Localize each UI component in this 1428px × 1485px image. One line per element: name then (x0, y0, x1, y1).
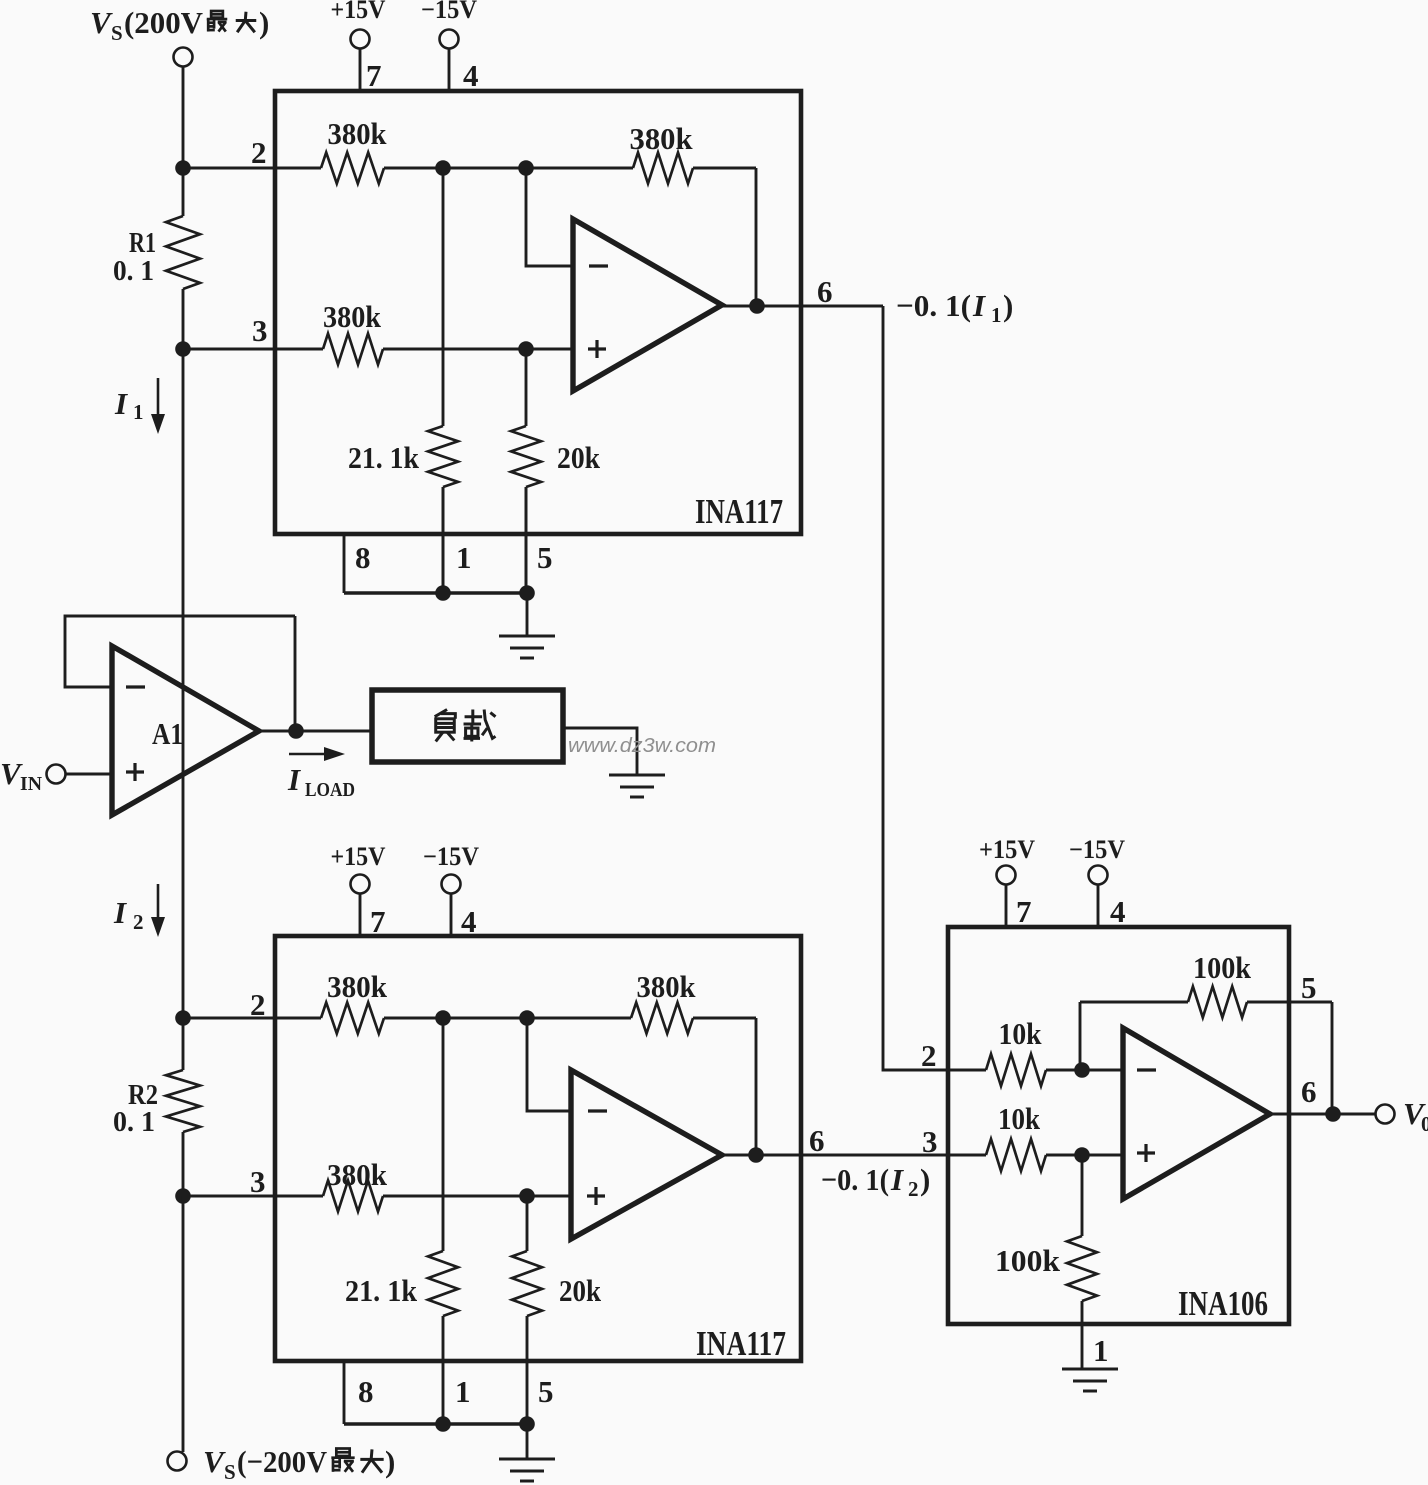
label +15V lower (331, 842, 386, 871)
node minus tap upper (518, 160, 534, 176)
svg-text:5: 5 (1301, 970, 1317, 1005)
svg-text:380k: 380k (328, 116, 388, 151)
svg-text:INA106: INA106 (1178, 1284, 1268, 1323)
node pin3 top (175, 341, 191, 357)
label 380k lower input+ (327, 1157, 388, 1192)
svg-text:+15V: +15V (331, 842, 386, 871)
wire -15V pin4 upper (448, 48, 451, 91)
svg-text:2: 2 (921, 1038, 937, 1073)
op-amp INA106 plus sign (1137, 1144, 1155, 1162)
wire minus input lower (527, 1018, 571, 1111)
wire feedback right segment INA106 (1247, 1001, 1332, 1004)
label VS(-200V max) (203, 1444, 395, 1484)
label pin 7 upper (366, 58, 382, 93)
wire A1 feedback right leg (294, 616, 297, 731)
arrow I2 current (151, 884, 165, 937)
svg-text:INA117: INA117 (696, 1324, 786, 1363)
op-amp INA106 (1123, 1028, 1270, 1199)
svg-text:2: 2 (908, 1177, 919, 1201)
resistor 21.1k upper (428, 426, 458, 487)
svg-text:2: 2 (251, 135, 267, 170)
label -15V INA106 (1069, 835, 1125, 864)
IC body INA117 upper (275, 91, 801, 534)
op-amp upper INA117 (573, 219, 722, 391)
arrow I1 current (151, 378, 165, 434)
svg-text:1: 1 (991, 303, 1002, 327)
wire pin8 leg upper (343, 534, 346, 593)
resistor 21.1k lower (428, 1251, 458, 1316)
label VIN (0, 756, 43, 795)
label 100k INA106 ground (995, 1243, 1061, 1278)
IC body INA106 (948, 927, 1289, 1324)
label 380k upper feedback (630, 121, 694, 156)
arrow ILOAD (289, 747, 345, 761)
node minus INA106 (1074, 1062, 1090, 1078)
wire output upper (722, 305, 883, 308)
label INA106 (1178, 1284, 1268, 1323)
svg-text:7: 7 (370, 904, 386, 939)
wire load to ground (563, 728, 637, 775)
label 380k upper input+ (323, 299, 382, 334)
svg-text:6: 6 (1301, 1074, 1317, 1109)
svg-text:1: 1 (1093, 1333, 1109, 1368)
label R2 (128, 1079, 158, 1111)
ground upper INA117 (499, 636, 555, 658)
label VS(200V max) (90, 5, 269, 45)
svg-text:−15V: −15V (1069, 835, 1125, 864)
label pin 7 lower (370, 904, 386, 939)
label R1 value 0.1 (113, 255, 154, 287)
node 21.1k tap lower (435, 1010, 451, 1026)
svg-text:IN: IN (20, 773, 43, 795)
label pin 4 upper (463, 58, 479, 93)
svg-text:100k: 100k (995, 1243, 1061, 1278)
label -15V upper (421, 0, 477, 24)
svg-text:4: 4 (463, 58, 479, 93)
svg-text:): ) (259, 5, 269, 40)
node output INA106 (1325, 1106, 1341, 1122)
resistor 380k upper feedback (633, 153, 693, 184)
terminal -15V upper (440, 30, 459, 49)
svg-text:): ) (1003, 288, 1013, 323)
wire ground rail lower (344, 1422, 527, 1425)
label pin 2 INA106 (921, 1038, 937, 1073)
label pin 3 upper (252, 313, 268, 348)
wire left rail middle (182, 349, 185, 1018)
resistor 380k upper input+ (323, 334, 383, 365)
resistor 20k lower (512, 1251, 542, 1316)
wire pin8 leg lower (343, 1361, 346, 1424)
wire pin2 node segment lower (384, 1017, 631, 1020)
wire pin3 segment INA106 (948, 1154, 986, 1157)
svg-text:−15V: −15V (423, 842, 479, 871)
svg-text:1: 1 (133, 400, 144, 424)
IC body INA117 lower (275, 936, 801, 1361)
svg-text:(200V: (200V (124, 5, 204, 40)
label I2 (113, 895, 144, 934)
label 21.1k upper (348, 440, 420, 475)
svg-text:8: 8 (358, 1374, 374, 1409)
svg-text:10k: 10k (999, 1016, 1043, 1051)
svg-text:380k: 380k (637, 969, 697, 1004)
wire minus input upper (526, 168, 573, 266)
label pin 1 upper (456, 540, 472, 575)
label +15V INA106 (979, 835, 1035, 864)
resistor 20k upper (511, 426, 541, 487)
label 380k lower input- (327, 969, 388, 1004)
svg-text:INA117: INA117 (695, 492, 783, 531)
terminal VS positive supply (174, 48, 193, 67)
wire pin2 input segment lower (183, 1017, 321, 1020)
svg-text:−0. 1(: −0. 1( (821, 1162, 889, 1197)
label R2 value 0.1 (113, 1106, 155, 1138)
wire A1 output (259, 730, 372, 733)
wire pin2 node segment (384, 167, 633, 170)
wire +15V pin7 upper (359, 48, 362, 91)
terminal +15V upper (351, 30, 370, 49)
terminal V0 output (1376, 1105, 1395, 1124)
resistor 100k INA106 feedback (1188, 987, 1247, 1018)
wire pin5 leg upper (525, 487, 528, 593)
label pin 6 lower (809, 1123, 825, 1158)
node 20k tap upper (518, 341, 534, 357)
svg-text:S: S (224, 1460, 236, 1484)
label pin 7 INA106 (1016, 894, 1032, 929)
node pin2 lower (175, 1010, 191, 1026)
svg-text:S: S (111, 21, 123, 45)
svg-text:20k: 20k (559, 1273, 602, 1308)
node 21.1k tap upper (435, 160, 451, 176)
label R1 (129, 227, 156, 259)
node pin5 ground lower (519, 1416, 535, 1432)
svg-text:LOAD: LOAD (305, 779, 355, 801)
svg-text:V: V (203, 1444, 226, 1479)
wire 21.1k top leg lower (442, 1018, 445, 1251)
wire output INA106 (1270, 1113, 1376, 1116)
terminal +15V lower (351, 875, 370, 894)
svg-text:I: I (890, 1162, 904, 1197)
svg-text:380k: 380k (323, 299, 382, 334)
label pin 1 lower (455, 1374, 471, 1409)
wire pin2 segment INA106 (948, 1069, 986, 1072)
op-amp lower minus sign (588, 1109, 607, 1112)
wire feedback down leg INA106 (1331, 1002, 1334, 1114)
svg-text:1: 1 (456, 540, 472, 575)
wire 100k bottom leg INA106 (1081, 1301, 1084, 1368)
wire 100k top leg INA106 (1081, 1155, 1084, 1236)
label ILOAD (287, 762, 355, 801)
svg-text:20k: 20k (557, 440, 601, 475)
label -0.1(I1) (896, 288, 1013, 327)
load box (372, 690, 563, 762)
op-amp A1 plus sign (126, 763, 144, 781)
label pin 3 INA106 (922, 1124, 938, 1159)
wire pin5 leg lower (526, 1316, 529, 1424)
svg-text:3: 3 (922, 1124, 938, 1159)
node pin3 lower (175, 1188, 191, 1204)
op-amp INA106 minus sign (1137, 1068, 1156, 1071)
wire pin3 to opamp (383, 348, 573, 351)
label pin 2 lower (250, 987, 266, 1022)
svg-text:0. 1: 0. 1 (113, 255, 154, 287)
svg-text:www.dz3w.com: www.dz3w.com (568, 735, 716, 757)
wire VIN to A1 (65, 773, 112, 776)
svg-text:4: 4 (461, 904, 477, 939)
wire pin1 leg upper (442, 487, 445, 593)
wire +15V pin7 lower (359, 893, 362, 936)
wire 10k to plus node (1046, 1154, 1082, 1157)
op-amp upper plus sign (588, 340, 606, 358)
resistor R1 0.1 (166, 216, 200, 289)
label A1 (152, 716, 183, 751)
wire left rail lower (182, 1018, 185, 1070)
ground lower INA117 (499, 1459, 555, 1481)
label -15V lower (423, 842, 479, 871)
resistor 380k lower feedback (631, 1003, 693, 1034)
label 380k upper input- (328, 116, 388, 151)
op-amp upper minus sign (589, 264, 608, 267)
wire pin3 input segment lower (183, 1195, 323, 1198)
label -0.1(I2) (821, 1162, 930, 1201)
svg-text:10k: 10k (998, 1101, 1041, 1136)
resistor R2 0.1 (166, 1070, 200, 1132)
label V0 (1403, 1096, 1428, 1136)
svg-text:6: 6 (809, 1123, 825, 1158)
wire feedback down leg lower (755, 1018, 758, 1155)
label I1 (114, 386, 144, 424)
wire A1 feedback top (65, 616, 295, 687)
wire feedback down leg upper (755, 168, 758, 306)
label pin 5 lower (538, 1374, 554, 1409)
svg-text:−0. 1(: −0. 1( (896, 288, 971, 323)
wire ground stem upper (526, 593, 529, 636)
label pin 5 INA106 (1301, 970, 1317, 1005)
svg-text:I: I (114, 386, 128, 421)
node output feedback lower (748, 1147, 764, 1163)
terminal VS negative supply (168, 1452, 187, 1471)
resistor 380k lower input+ (323, 1181, 383, 1212)
wire 20k bottom leg upper (525, 487, 528, 593)
wire R1 to pin3 node (182, 289, 185, 349)
op-amp A1 minus sign (126, 685, 145, 688)
label 10k INA106 minus (999, 1016, 1043, 1051)
svg-text:380k: 380k (327, 969, 388, 1004)
resistor 10k INA106 minus (986, 1054, 1046, 1086)
wire 21.1k top leg upper (442, 168, 445, 426)
label pin 4 INA106 (1110, 894, 1126, 929)
label pin 6 upper (817, 274, 833, 309)
wire VS top vertical (182, 66, 185, 216)
label 10k INA106 plus (998, 1101, 1041, 1136)
wire -15V pin4 lower (450, 893, 453, 936)
svg-text:4: 4 (1110, 894, 1126, 929)
label 20k upper (557, 440, 601, 475)
wire minus node to opamp (1082, 1069, 1123, 1072)
wire 10k to minus node (1046, 1069, 1082, 1072)
svg-text:380k: 380k (630, 121, 694, 156)
resistor 380k lower input- (321, 1003, 384, 1034)
label pin 3 lower (250, 1164, 266, 1199)
ground load (609, 775, 665, 797)
node pin1 ground lower (435, 1416, 451, 1432)
svg-text:3: 3 (250, 1164, 266, 1199)
wire 21.1k bottom leg upper (442, 487, 445, 593)
terminal -15V INA106 (1089, 866, 1108, 885)
svg-text:I: I (113, 895, 127, 930)
svg-text:I: I (287, 762, 301, 797)
wire plus node to opamp (1082, 1154, 1123, 1157)
svg-text:6: 6 (817, 274, 833, 309)
node 20k tap lower (519, 1188, 535, 1204)
wire pin3 input segment (183, 348, 323, 351)
terminal -15V lower (442, 875, 461, 894)
wire feedback corner lower (693, 1017, 756, 1020)
label +15V upper (331, 0, 386, 24)
node plus INA106 (1074, 1147, 1090, 1163)
label pin 8 upper (355, 540, 371, 575)
label INA117 lower (696, 1324, 786, 1363)
svg-text:(−200V: (−200V (237, 1444, 328, 1479)
svg-text:1: 1 (455, 1374, 471, 1409)
wire pin3 lower to VS negative (182, 1196, 185, 1452)
op-amp A1 (112, 646, 259, 815)
svg-text:0: 0 (1421, 1112, 1428, 1136)
svg-text:+15V: +15V (979, 835, 1035, 864)
svg-text:0. 1: 0. 1 (113, 1106, 155, 1138)
terminal VIN (47, 765, 66, 784)
wire feedback to corner upper (693, 167, 756, 170)
svg-text:+15V: +15V (331, 0, 386, 24)
svg-text:7: 7 (366, 58, 382, 93)
wire ground rail upper (344, 591, 527, 594)
resistor 100k INA106 ground (1067, 1236, 1097, 1301)
label pin 8 lower (358, 1374, 374, 1409)
wire 20k top leg lower (526, 1196, 529, 1251)
label pin 5 upper (537, 540, 553, 575)
svg-text:A1: A1 (152, 716, 183, 751)
node A1 output (288, 723, 304, 739)
svg-text:5: 5 (537, 540, 553, 575)
node pin5 ground upper (519, 585, 535, 601)
label pin 4 lower (461, 904, 477, 939)
node pin2 top (175, 160, 191, 176)
op-amp lower plus sign (587, 1187, 605, 1205)
svg-text:380k: 380k (327, 1157, 388, 1192)
wire feedback left leg INA106 (1079, 1002, 1082, 1070)
svg-text:3: 3 (252, 313, 268, 348)
node output feedback upper (749, 298, 765, 314)
op-amp lower INA117 (571, 1070, 722, 1239)
label pin 6 INA106 (1301, 1074, 1317, 1109)
wire R2 to pin3 lower (182, 1132, 185, 1196)
node minus tap lower (519, 1010, 535, 1026)
ground INA106 (1062, 1369, 1118, 1391)
svg-text:21. 1k: 21. 1k (348, 440, 420, 475)
wire feedback left segment INA106 (1080, 1001, 1188, 1004)
label 21.1k lower (345, 1273, 418, 1308)
svg-text:7: 7 (1016, 894, 1032, 929)
svg-text:5: 5 (538, 1374, 554, 1409)
resistor 380k upper input- (321, 153, 384, 184)
label 380k lower feedback (637, 969, 697, 1004)
wire pin3 to opamp lower (383, 1195, 571, 1198)
wire +15V pin7 INA106 (1005, 884, 1008, 927)
label 100k INA106 feedback (1193, 950, 1252, 985)
svg-text:): ) (920, 1162, 930, 1197)
svg-text:): ) (385, 1444, 395, 1479)
svg-text:−15V: −15V (421, 0, 477, 24)
wire -15V pin4 INA106 (1097, 884, 1100, 927)
terminal +15V INA106 (997, 866, 1016, 885)
svg-text:2: 2 (133, 910, 144, 934)
resistor 10k INA106 plus (986, 1139, 1046, 1171)
wire ground stem lower (526, 1424, 529, 1459)
svg-text:I: I (972, 288, 986, 323)
wire pin1 leg lower (442, 1316, 445, 1424)
label INA117 upper (695, 492, 783, 531)
wire pin2 input segment (183, 167, 321, 170)
label pin 1 INA106 (1093, 1333, 1109, 1368)
node pin1 ground upper (435, 585, 451, 601)
svg-text:V: V (90, 5, 113, 40)
label pin 2 upper (251, 135, 267, 170)
svg-text:100k: 100k (1193, 950, 1252, 985)
label 20k lower (559, 1273, 602, 1308)
label load (fuzai) (435, 710, 496, 742)
svg-text:8: 8 (355, 540, 371, 575)
wire 20k top leg upper (525, 349, 528, 426)
watermark www.dz3w.com (568, 735, 716, 757)
wire link pin6 upper to INA106 pin2 (883, 306, 948, 1070)
wire output lower (722, 1154, 948, 1157)
svg-text:21. 1k: 21. 1k (345, 1273, 418, 1308)
